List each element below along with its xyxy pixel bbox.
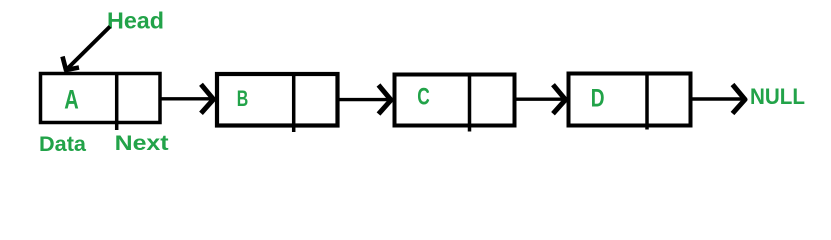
svg-text:Next: Next (115, 130, 169, 155)
node C divider (468, 74, 472, 132)
node D divider (645, 73, 649, 130)
arrow C to D shaft (516, 97, 563, 100)
svg-text:Data: Data (39, 133, 86, 156)
node C box (395, 75, 515, 126)
svg-text:C: C (417, 84, 430, 111)
svg-text:D: D (591, 85, 605, 112)
head arrowhead (63, 57, 80, 71)
node A box (41, 74, 161, 123)
node B box (217, 74, 338, 126)
head arrow shaft (67, 27, 110, 70)
arrow C to D head (553, 85, 566, 114)
arrow B to C shaft (338, 98, 389, 101)
arrow D to NULL shaft (693, 97, 744, 100)
svg-text:A: A (64, 85, 79, 115)
svg-text:NULL: NULL (750, 84, 805, 109)
arrow D to NULL head (733, 85, 746, 114)
arrow A to B shaft (160, 97, 212, 100)
node A divider (115, 72, 119, 130)
arrow A to B head (201, 84, 214, 113)
node B divider (292, 74, 296, 132)
node D box (569, 74, 691, 126)
arrow B to C head (379, 85, 392, 114)
svg-text:B: B (237, 86, 249, 111)
svg-text:Head: Head (107, 8, 164, 34)
